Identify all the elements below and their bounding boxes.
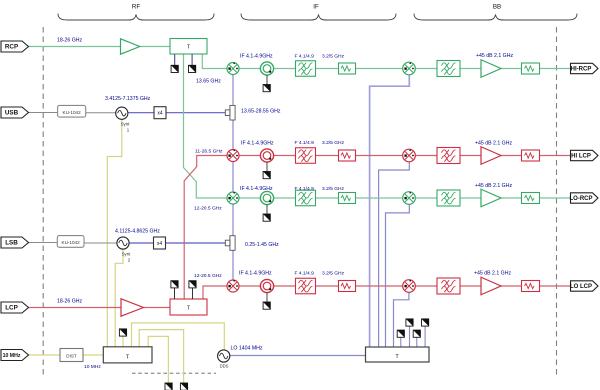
svg-text:10 MHz: 10 MHz [84, 364, 101, 370]
module K1 [58, 105, 86, 117]
osc DDS [218, 350, 230, 362]
wire AT2 to mixer M6 [356, 155, 404, 157]
wire M8 to filter F8 [415, 285, 437, 287]
svg-text:4.1125-4.8625 GHz: 4.1125-4.8625 GHz [115, 229, 160, 235]
svg-text:RF: RF [132, 4, 140, 11]
svg-text:F 4.1/4.9: F 4.1/4.9 [295, 140, 315, 146]
svg-text:3.2/5 GHz: 3.2/5 GHz [322, 140, 345, 146]
mixer M3 [227, 192, 239, 204]
wire I4 to filter F4 [274, 285, 296, 287]
wire PD4 terminated stub 1 [400, 337, 402, 347]
svg-text:RCP: RCP [5, 44, 18, 51]
label F3 band [295, 186, 315, 192]
wire I2 termination stub [266, 162, 268, 171]
label Synt2 range [115, 229, 160, 235]
wire AT8 to LO-LCP output [540, 285, 571, 287]
filter F6 [437, 148, 460, 164]
termination I4 [263, 302, 270, 309]
svg-text:+45 dB 2.1 GHz: +45 dB 2.1 GHz [475, 183, 512, 189]
termination PD2-1 [171, 281, 178, 288]
osc Synt1 [116, 107, 128, 119]
mixer M2 [227, 150, 239, 162]
termination I3 [263, 214, 270, 221]
svg-text:0.25-1.45 GHz: 0.25-1.45 GHz [245, 242, 279, 248]
wire DDS to splitter PD4 [230, 355, 366, 357]
svg-text:18-26 GHz: 18-26 GHz [57, 38, 82, 44]
label F4 band [295, 271, 315, 277]
mixer M6 [403, 149, 416, 162]
tap TP2 [225, 236, 235, 251]
wire PD3 to oscillator DDS (yellow) [132, 323, 225, 350]
svg-text:KU-1042: KU-1042 [63, 110, 82, 115]
svg-text:IF 4.1-4.9GHz: IF 4.1-4.9GHz [241, 141, 274, 147]
wire M5 to filter F5 [415, 68, 437, 70]
wire PD1 terminated stub 2 [191, 54, 193, 65]
svg-text:F 4.1/4.9: F 4.1/4.9 [295, 54, 315, 60]
amp A2 [121, 299, 144, 316]
wire LCP input [29, 307, 122, 309]
wire AT4 to mixer M8 [356, 285, 404, 287]
brace RF section [58, 4, 214, 21]
wire module K2 to osc Synt2 [84, 242, 117, 244]
wire LO to mixer M7 (row3) [386, 204, 410, 347]
wire module K1 to osc Synt1 [86, 112, 116, 114]
termination I1 [263, 85, 270, 92]
termination PD1-2 [189, 65, 196, 72]
port 10 MHz input [1, 350, 29, 361]
port HI LCP output [571, 150, 599, 160]
attenuator AT3 [339, 193, 356, 204]
label DDS output [231, 346, 263, 352]
mixer M8 [403, 280, 416, 293]
svg-text:+45 dB 2.1 GHz: +45 dB 2.1 GHz [474, 271, 511, 277]
termination PD3 [119, 329, 126, 336]
wire A8 to attenuator AT8 [501, 285, 522, 287]
wire osc Synt2 to multiplier X2 [129, 242, 153, 244]
label IF3 [240, 186, 273, 192]
dashed boundary left [42, 27, 44, 376]
svg-text:11-26.5 GHz: 11-26.5 GHz [195, 149, 223, 155]
wire amp A1 to splitter PD1 [140, 46, 170, 48]
wire PD2 terminated stub 1 [174, 288, 176, 299]
wire PD1 terminated stub 1 [174, 54, 176, 65]
module K2 [57, 236, 84, 248]
wire multiplier X2 to tap TP2 [166, 242, 231, 244]
label LO1 value [196, 79, 221, 85]
amp A8 [481, 277, 501, 295]
wire multiplier X1 to tap TP1 [166, 112, 230, 114]
label LCP band [57, 299, 82, 305]
termination PD2-2 [189, 281, 196, 288]
splitter PD4 [366, 347, 430, 362]
wire osc Synt1 to multiplier X1 [128, 112, 154, 114]
wire AT3 to mixer M7 [356, 197, 404, 199]
svg-text:+45 dB 2.1 GHz: +45 dB 2.1 GHz [475, 141, 512, 147]
wire PD3 terminated stub [122, 336, 124, 347]
wire F4 to attenuator AT4 [316, 285, 339, 287]
termination PD4-1 [397, 330, 404, 337]
isolator I3 [260, 191, 273, 204]
label TP2 range [245, 242, 279, 248]
mixer M1 [227, 63, 239, 75]
filter F8 [437, 278, 460, 294]
wire F6 to amp A6 [460, 155, 481, 157]
svg-text:10 MHz: 10 MHz [3, 353, 21, 359]
isolator I4 [260, 279, 273, 292]
termination PD4-4 [422, 319, 429, 326]
wire M2 to isolator I2 [239, 155, 260, 157]
termination I2 [263, 172, 270, 179]
svg-text:Synt: Synt [122, 252, 132, 257]
wire PD3 spare output 2 (yellow) [148, 336, 168, 383]
svg-text:3.2/5 GHz: 3.2/5 GHz [322, 54, 345, 60]
wire F7 to amp A7 [460, 197, 481, 199]
svg-text:IF: IF [313, 4, 319, 11]
svg-text:HI-RCP: HI-RCP [571, 67, 592, 73]
wire DIST box to splitter PD3 [83, 354, 103, 356]
label row3 band [194, 206, 222, 212]
wire I1 termination stub [266, 75, 268, 84]
attenuator AT5 [522, 63, 540, 74]
attenuator AT1 [339, 63, 356, 74]
wire AT1 to mixer M5 [356, 68, 404, 70]
svg-text:LO-RCP: LO-RCP [570, 196, 593, 202]
dashed boundary right [556, 27, 558, 376]
wire PD2 to mixer M4 [203, 286, 227, 299]
svg-text:LO 1404 MHz: LO 1404 MHz [231, 346, 263, 352]
label A8 gain [474, 271, 511, 277]
port HI-RCP output [571, 63, 599, 73]
label row2 band [195, 149, 223, 155]
isolator I1 [260, 62, 273, 75]
label IF2 [241, 141, 274, 147]
brace BB section [414, 4, 577, 21]
wire PD4 terminated stub 3 [416, 337, 418, 347]
svg-text:USB: USB [5, 110, 19, 117]
termination PD4-2 [406, 319, 413, 326]
svg-text:DDS: DDS [220, 364, 229, 369]
label IF4 [239, 271, 272, 277]
wire PD1 to mixer M1 [202, 54, 227, 69]
svg-text:18-26 GHz: 18-26 GHz [57, 299, 82, 305]
svg-text:13.65-28.55 GHz: 13.65-28.55 GHz [241, 109, 281, 115]
termination PD1-1 [171, 65, 178, 72]
osc Synt2 [117, 237, 129, 249]
wire I2 to filter F2 [274, 155, 296, 157]
attenuator AT6 [522, 150, 540, 161]
port LO LCP output [570, 281, 598, 291]
svg-text:DIST: DIST [66, 354, 77, 359]
termination spare 2 [180, 383, 187, 390]
svg-text:LO LCP: LO LCP [570, 284, 592, 290]
wire I4 termination stub [266, 293, 268, 302]
label F2 band [295, 140, 315, 146]
wire PD1 down to crossover (green) [184, 54, 228, 198]
label A6 gain [475, 141, 512, 147]
filter F5 [437, 61, 460, 77]
wire 10MHz flag to DIST box [29, 354, 61, 356]
wire AT7 to LO-RCP output [540, 197, 571, 199]
label Synt1 range [105, 96, 151, 102]
label 10MHz net [84, 364, 101, 370]
attenuator AT4 [339, 281, 356, 292]
wire I3 termination stub [266, 205, 268, 214]
svg-text:F 4.1/4.9: F 4.1/4.9 [295, 186, 315, 192]
wire F5 to amp A5 [460, 68, 481, 70]
svg-text:IF 4.1-4.9GHz: IF 4.1-4.9GHz [239, 271, 272, 277]
wire PD4 terminated stub 2 [409, 326, 411, 347]
port USB input [1, 107, 29, 118]
wire M4 to isolator I4 [239, 285, 260, 287]
wire amp A2 to splitter PD2 [144, 307, 170, 309]
wire F2 to attenuator AT2 [316, 155, 339, 157]
port LSB input [1, 237, 29, 248]
svg-text:KU-1042: KU-1042 [62, 240, 81, 245]
splitter PD3 [103, 347, 152, 363]
wire F1 to attenuator AT1 [316, 68, 339, 70]
wire I3 to filter F3 [274, 197, 296, 199]
svg-text:BB: BB [493, 4, 501, 11]
wire LO1 bus vertical [232, 75, 234, 281]
svg-text:x4: x4 [157, 241, 163, 247]
wire PD2 up to crossover (red) [184, 156, 227, 300]
port LO-RCP output [570, 193, 599, 203]
wire F8 to amp A8 [460, 285, 481, 287]
svg-text:12-20.5 GHz: 12-20.5 GHz [194, 273, 222, 279]
wire PD3 spare output 1 (yellow) [139, 330, 183, 383]
filter F2 [296, 148, 316, 164]
svg-text:3.2/5 GHz: 3.2/5 GHz [322, 186, 345, 192]
wire synth1 reference (yellow) [107, 119, 122, 346]
attenuator AT7 [522, 193, 540, 204]
svg-text:Synt: Synt [121, 122, 131, 127]
svg-text:LSB: LSB [5, 240, 18, 247]
wire A7 to attenuator AT7 [501, 197, 522, 199]
svg-text:2: 2 [128, 258, 131, 263]
svg-text:12-20.5 GHz: 12-20.5 GHz [194, 206, 222, 212]
filter F4 [296, 278, 316, 294]
filter F1 [296, 61, 316, 77]
wire PD4 terminated stub 4 [424, 326, 426, 347]
label A5 gain [476, 53, 513, 59]
multiplier X2 [154, 237, 166, 249]
label RCP band [57, 38, 82, 44]
wire A6 to attenuator AT6 [501, 155, 522, 157]
svg-text:3.4125-7.1375 GHz: 3.4125-7.1375 GHz [105, 96, 151, 102]
attenuator AT8 [522, 281, 540, 292]
splitter PD2 [170, 299, 207, 315]
wire I1 to filter F1 [274, 68, 296, 70]
svg-text:IF 4.1-4.9GHz: IF 4.1-4.9GHz [240, 54, 273, 60]
wire LSB flag to module K2 [29, 242, 58, 244]
port LCP input [1, 302, 29, 313]
tap TP1 [225, 105, 235, 120]
multiplier X1 [154, 107, 166, 119]
wire LO to mixer M8 (row4) [394, 292, 409, 347]
mixer M5 [403, 62, 416, 75]
wire A5 to attenuator AT5 [501, 68, 522, 70]
wire M7 to filter F7 [415, 197, 437, 199]
dashed boundary bottom [132, 372, 216, 374]
wire AT6 to HI-LCP output [540, 155, 571, 157]
port RCP input [1, 41, 29, 52]
amp A6 [481, 147, 501, 165]
svg-text:F 4.1/4.9: F 4.1/4.9 [295, 271, 315, 277]
isolator I2 [260, 149, 273, 162]
wire PD2 terminated stub 2 [192, 288, 194, 299]
wire M3 to isolator I3 [239, 197, 260, 199]
svg-text:+45 dB 2.1 GHz: +45 dB 2.1 GHz [476, 53, 513, 59]
wire LO to mixer M5 (row1) [370, 75, 410, 348]
label F1 band [295, 54, 315, 60]
wire synth2 reference (yellow) [115, 249, 123, 347]
svg-text:IF 4.1-4.9GHz: IF 4.1-4.9GHz [240, 186, 273, 192]
label IF1 [240, 54, 273, 60]
svg-text:LCP: LCP [5, 305, 18, 312]
wire M6 to filter F6 [415, 155, 437, 157]
attenuator AT2 [339, 150, 356, 161]
wire AT5 to HI-RCP output [540, 68, 571, 70]
label TP1 range [241, 109, 281, 115]
svg-text:3.2/5 GHz: 3.2/5 GHz [322, 271, 345, 277]
svg-text:x4: x4 [157, 111, 163, 117]
wire USB flag to module K1 [29, 112, 58, 114]
termination spare 1 [165, 383, 172, 390]
mixer M4 [227, 280, 239, 292]
svg-text:13.65 GHz: 13.65 GHz [196, 79, 221, 85]
wire F3 to attenuator AT3 [316, 197, 339, 199]
termination PD4-3 [413, 330, 420, 337]
label DDS [220, 364, 229, 369]
module DIST [60, 349, 83, 362]
splitter PD1 [170, 39, 207, 55]
svg-text:1: 1 [127, 128, 130, 133]
label Synt2 [122, 252, 132, 257]
wire RCP input [29, 46, 121, 48]
filter F3 [296, 190, 316, 206]
mixer M7 [403, 192, 416, 205]
label A7 gain [475, 183, 512, 189]
filter F7 [437, 190, 460, 206]
label row4 band [194, 273, 222, 279]
wire M1 to isolator I1 [239, 68, 260, 70]
svg-text:HI LCP: HI LCP [571, 154, 591, 160]
brace IF section [241, 4, 396, 21]
amp A5 [481, 60, 501, 78]
amp A7 [481, 189, 501, 207]
wire LO to mixer M6 (row2) [379, 162, 410, 348]
label Synt1 [121, 122, 131, 127]
amp A1 [121, 39, 140, 54]
